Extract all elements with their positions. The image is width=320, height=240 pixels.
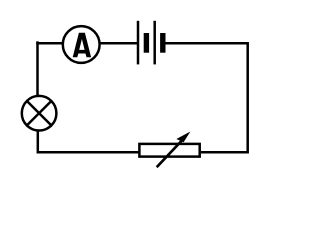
wire top-left horizontal (corner to ammeter) (36, 42, 63, 45)
wire battery to bottom-right (top edge, right edge) (164, 43, 248, 152)
lamp cross stroke 2 (26, 101, 51, 126)
lamp bulb circle (22, 96, 57, 131)
arrow shaft (157, 137, 185, 167)
lamp L1 (22, 96, 57, 131)
rheostat R1 (variable resistor) (139, 132, 199, 168)
battery B1 (two cells) (138, 21, 163, 65)
cell 2 long plate (153, 21, 156, 65)
resistor body (139, 144, 199, 157)
wire rheostat to lamp (bottom edge, left rise) (38, 130, 139, 152)
cell 1 short plate (144, 33, 149, 53)
cell 1 long plate (137, 21, 140, 65)
lamp cross stroke 1 (26, 101, 51, 126)
wire left vertical (lamp up to corner) (36, 41, 39, 96)
ammeter letter A (73, 33, 91, 58)
cell 2 short plate (160, 33, 165, 53)
wire ammeter to battery (100, 42, 138, 45)
ammeter body circle (63, 26, 100, 63)
ammeter A1 (63, 26, 100, 63)
arrow head (176, 132, 190, 143)
